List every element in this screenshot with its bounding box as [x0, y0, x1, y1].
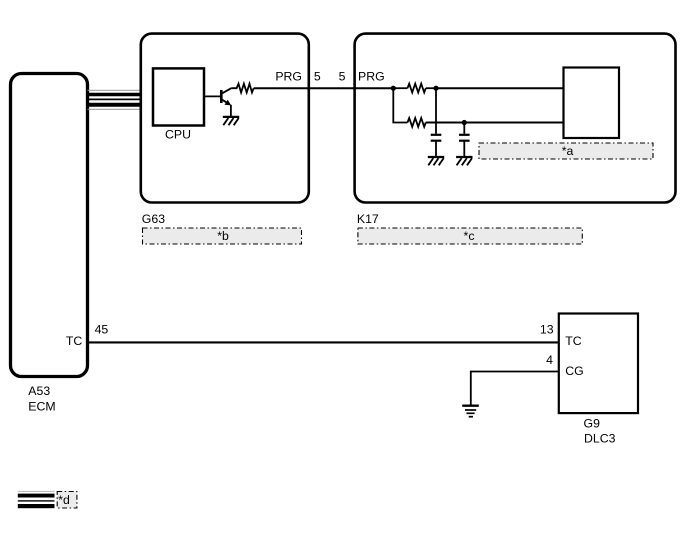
svg-text:13: 13 — [540, 323, 554, 337]
legend shielded wire symbol — [18, 491, 55, 508]
transistor Q1 base wire — [204, 95, 221, 97]
wire R1 to node J2 — [426, 87, 436, 89]
wire TC (ECM to DLC3) — [88, 341, 559, 343]
wire node J1 down and right — [393, 88, 407, 122]
wire emitter to ground — [230, 105, 232, 117]
wire node J2 to block — [436, 87, 564, 89]
chassis ground (C2) — [456, 157, 472, 165]
svg-text:A53: A53 — [28, 384, 50, 398]
node J3 — [462, 120, 467, 125]
svg-text:TC: TC — [66, 334, 83, 348]
svg-text:CG: CG — [565, 364, 583, 378]
svg-text:5: 5 — [339, 70, 346, 84]
wire CG to ground — [471, 372, 559, 405]
transistor Q1 emitter with arrow — [221, 99, 228, 104]
svg-text:PRG: PRG — [275, 70, 302, 84]
note box *a — [479, 143, 653, 159]
resistor R2 (bottom) — [408, 118, 426, 127]
connector A53 ECM box — [11, 74, 88, 377]
wire R2 to block — [426, 122, 564, 124]
note box *b — [143, 228, 302, 244]
wire node J3 to capacitor C2 — [463, 123, 465, 134]
svg-text:K17: K17 — [357, 212, 379, 226]
svg-text:45: 45 — [95, 323, 109, 337]
block U2 inside K17 — [564, 68, 620, 139]
resistor R1 (top) — [408, 84, 426, 93]
connector K17 box — [355, 34, 676, 203]
connector G63 box — [141, 34, 309, 203]
transistor Q1 base bar — [220, 90, 223, 103]
svg-text:PRG: PRG — [358, 70, 385, 84]
note box *d — [57, 492, 77, 509]
capacitor C1 — [431, 135, 442, 156]
svg-text:G63: G63 — [142, 212, 165, 226]
wire node J2 to capacitor C1 — [435, 88, 437, 134]
resistor (G63 collector) — [231, 84, 254, 93]
svg-text:*b: *b — [217, 229, 229, 243]
wire bus ECM to G63 (thick-thin-thick) — [88, 90, 141, 110]
capacitor C2 — [459, 135, 470, 156]
wire PRG G63 to K17 — [254, 87, 394, 89]
note box *c — [358, 228, 582, 244]
signal ground (CG) — [462, 406, 479, 417]
chassis ground (G63) — [223, 117, 239, 125]
svg-text:G9: G9 — [584, 416, 601, 430]
svg-text:ECM: ECM — [28, 400, 55, 414]
svg-text:5: 5 — [314, 70, 321, 84]
transistor Q1 collector — [221, 88, 231, 94]
CPU block U1 — [153, 68, 204, 125]
svg-text:CPU: CPU — [165, 128, 191, 142]
chassis ground (C1) — [428, 157, 444, 165]
svg-text:*d: *d — [58, 493, 70, 507]
connector G9 DLC3 box — [559, 314, 638, 414]
node J2 — [433, 86, 438, 91]
node J1 — [391, 86, 396, 91]
wire node J1 to R1 — [393, 87, 407, 89]
svg-text:DLC3: DLC3 — [584, 431, 616, 445]
svg-text:*c: *c — [464, 229, 475, 243]
svg-text:*a: *a — [562, 144, 574, 158]
svg-text:TC: TC — [565, 334, 582, 348]
svg-text:4: 4 — [546, 353, 553, 367]
